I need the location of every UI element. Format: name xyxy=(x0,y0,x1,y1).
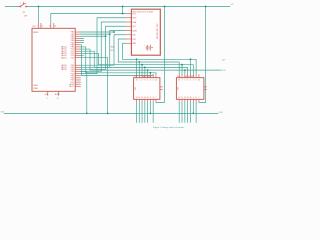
wire PB2 tap xyxy=(81,35,106,37)
IC3 right pin labels xyxy=(69,32,74,88)
svg-text:20: 20 xyxy=(41,25,43,27)
svg-text:16: 16 xyxy=(198,80,200,82)
svg-text:QH*: QH* xyxy=(222,59,226,61)
svg-text:13: 13 xyxy=(144,97,146,99)
shift register IC1 74HC595N body xyxy=(134,78,160,100)
svg-text:8: 8 xyxy=(153,97,154,99)
svg-text:+: + xyxy=(144,44,145,46)
svg-text:1: 1 xyxy=(139,80,140,82)
wire PB1 tap xyxy=(81,33,110,35)
svg-text:1: 1 xyxy=(20,2,21,4)
wire IC2 pin3 riser xyxy=(184,70,186,74)
svg-text:8: 8 xyxy=(47,98,48,100)
svg-text:5: 5 xyxy=(193,80,194,82)
svg-text:18: 18 xyxy=(54,25,56,27)
svg-text:10: 10 xyxy=(147,97,149,99)
IC2 bottom pins xyxy=(179,99,199,102)
wire rail drop to module VCC row xyxy=(122,7,124,14)
wire IC1 pin6 riser xyxy=(149,73,151,75)
module pin labels xyxy=(132,13,137,45)
svg-text:11: 11 xyxy=(138,97,140,99)
wire bus R6 xyxy=(86,72,156,74)
wire bus R4 xyxy=(94,66,187,68)
svg-text:6: 6 xyxy=(153,80,154,82)
svg-text:SCK: SCK xyxy=(222,70,227,72)
wire IC3 pin fan x98.5 to bus R3 xyxy=(81,53,99,64)
svg-text:13: 13 xyxy=(187,97,189,99)
svg-text:595: 595 xyxy=(178,87,180,90)
svg-text:1: 1 xyxy=(182,80,183,82)
junction GND bus IC3 xyxy=(86,113,88,115)
svg-text:595: 595 xyxy=(135,87,137,90)
junction IC1 GND xyxy=(150,113,152,115)
svg-text:2: 2 xyxy=(142,80,143,82)
junction IC1 pin3 on R3 xyxy=(141,64,143,66)
svg-text:6: 6 xyxy=(196,80,197,82)
svg-text:15: 15 xyxy=(178,80,180,82)
wire bus R1 xyxy=(123,58,197,60)
svg-text:+5V: +5V xyxy=(230,4,234,6)
module left pins xyxy=(125,14,131,44)
wire IC2 pin1 riser xyxy=(178,62,180,74)
IC3 right pins xyxy=(75,32,81,86)
microcontroller IC3 MEGA8-P body xyxy=(32,28,75,91)
wire bus R3 xyxy=(99,64,194,66)
svg-text:GND 3.3V+5V VCC SQW: GND 3.3V+5V VCC SQW xyxy=(132,11,153,13)
wire IC1 pin5 riser xyxy=(147,70,149,74)
svg-text:GND: GND xyxy=(132,18,137,20)
junction rail to IC2 VCC xyxy=(205,6,207,8)
wire module row 22.0 to IC3 row 71.5 xyxy=(81,22,126,72)
IC1 pin numbers xyxy=(136,80,157,100)
junction IC2 pin2 on R3 xyxy=(181,64,183,66)
IC3 inner long labels xyxy=(61,46,67,72)
junction IC2 pin5 on R1 xyxy=(190,58,192,60)
wire IC1 pin4 riser xyxy=(144,67,146,74)
wire PB0 tap xyxy=(81,31,114,33)
junction IC2 GND xyxy=(192,113,194,115)
svg-text:PC4: PC4 xyxy=(71,57,74,59)
junction IC2 pin3 on R5 xyxy=(184,69,186,71)
module U1 RTC DS1307 body xyxy=(131,9,160,55)
svg-text:7: 7 xyxy=(156,97,157,99)
IC1 right pins xyxy=(160,87,163,89)
wire VCC rail left of switch xyxy=(5,6,18,8)
svg-text:XTAL1: XTAL1 xyxy=(33,84,38,87)
svg-text:GND: GND xyxy=(219,112,224,114)
wire IC1 pin7 riser xyxy=(152,74,154,75)
switch S1 xyxy=(18,2,29,7)
wire VCC pin to rail xyxy=(38,7,40,24)
wire IC3 pin fan x85.75 to bus R6 xyxy=(81,47,86,73)
svg-text:3: 3 xyxy=(144,80,145,82)
svg-text:SQW: SQW xyxy=(132,30,137,32)
junction PB2 tap xyxy=(105,35,107,37)
wire module row 26.2 to IC3 row 69.4 xyxy=(81,26,126,69)
wire IC2 pin4 riser xyxy=(187,67,189,74)
svg-text:SCL: SCL xyxy=(111,50,114,52)
junction GND bus riser2 xyxy=(107,113,109,115)
svg-text:SCL: SCL xyxy=(132,26,136,28)
junction rail to IC3 VCC xyxy=(38,6,40,8)
wire IC3 GND riser xyxy=(81,72,87,114)
wire VCC drop to IC2 xyxy=(199,7,206,103)
shift register IC2 74HC595N body xyxy=(176,78,204,100)
wire IC2 output tails xyxy=(179,102,196,122)
svg-text:9: 9 xyxy=(193,97,194,99)
wire IC1 pin8 riser xyxy=(155,73,157,75)
wire IC2 pin6 riser xyxy=(192,65,194,75)
battery symbol inside module xyxy=(146,45,153,51)
svg-text:8: 8 xyxy=(196,97,197,99)
svg-text:14: 14 xyxy=(178,97,180,99)
svg-text:11: 11 xyxy=(181,97,183,99)
junction IC1 pin2 on R2 xyxy=(138,61,140,63)
svg-text:15: 15 xyxy=(136,80,138,82)
svg-text:12: 12 xyxy=(141,97,143,99)
svg-text:DS1307 RTC I2C: DS1307 RTC I2C xyxy=(157,23,159,39)
junction PB1 tap xyxy=(109,33,111,35)
wire module row 34.8 to IC3 row 65.2 xyxy=(81,35,126,65)
IC3 top pins VCC/AVCC/AREF xyxy=(39,23,54,28)
wire IC2 pin5 riser xyxy=(189,59,191,74)
wire GND bus xyxy=(4,112,218,114)
svg-text:21: 21 xyxy=(49,25,51,27)
wire IC3 pin fan x90.0 to bus R5 xyxy=(81,49,90,70)
wire AVCC to module VCC pin xyxy=(51,14,126,24)
IC1 bottom pins xyxy=(137,99,156,102)
wire IC2 pin2 riser xyxy=(181,65,183,75)
junction IC1 pin4 on R4 xyxy=(144,67,146,69)
svg-text:10: 10 xyxy=(190,97,192,99)
wire bus R5 xyxy=(90,69,221,71)
wire IC2 GND pin xyxy=(192,102,194,113)
svg-text:74HC595N: 74HC595N xyxy=(142,76,152,78)
wire IC1 pin3 riser xyxy=(141,65,143,75)
IC2 top pins xyxy=(179,74,199,77)
wire IC2 pin7 riser xyxy=(195,59,197,74)
junction rail to IC1 VCC xyxy=(164,6,166,8)
svg-text:XTAL2: XTAL2 xyxy=(33,87,38,90)
IC1 top pins xyxy=(137,74,156,77)
svg-text:2: 2 xyxy=(184,80,185,82)
wire IC1 output tails xyxy=(137,102,154,122)
svg-text:ADC7: ADC7 xyxy=(69,85,74,88)
junction PB0 tap xyxy=(113,31,115,33)
wire IC3 pin fan x94.25 to bus R4 xyxy=(81,51,94,67)
svg-text:RESET: RESET xyxy=(33,32,39,34)
IC2 pin numbers xyxy=(178,80,200,100)
junction IC1 pin6 on R6 xyxy=(150,72,152,74)
svg-text:14: 14 xyxy=(136,97,138,99)
wire bus R7 xyxy=(82,75,154,77)
wire IC1 pin1 riser xyxy=(136,59,138,74)
wire IC1 GND pin xyxy=(149,102,151,113)
IC3 bottom pins GND/AGND xyxy=(48,91,59,96)
wire module row 17.8 to IC3 row 73.6 xyxy=(81,18,126,74)
svg-text:3: 3 xyxy=(187,80,188,82)
svg-text:74HC595N: 74HC595N xyxy=(185,76,195,78)
junction IC1 pin5 on R5 xyxy=(147,69,149,71)
svg-text:12: 12 xyxy=(184,97,186,99)
svg-text:Figure 1: binary clock schemat: Figure 1: binary clock schematic xyxy=(153,126,185,129)
svg-text:4: 4 xyxy=(190,80,191,82)
svg-text:5: 5 xyxy=(150,80,151,82)
wire PC4 riser to GND bus xyxy=(81,58,108,114)
IC2 right pins xyxy=(204,87,207,89)
svg-text:7: 7 xyxy=(198,97,199,99)
junction IC1 pin1 on R1 xyxy=(136,58,138,60)
wire IC1 pin2 riser xyxy=(138,62,140,74)
junction rail to module VCC xyxy=(122,6,124,8)
wire bus R2 xyxy=(118,61,179,63)
wire module pin7 down to bus R2 xyxy=(118,39,125,62)
wire module pin8 down to bus R1 xyxy=(123,43,126,59)
wire VCC rail xyxy=(29,6,230,8)
svg-text:9: 9 xyxy=(150,97,151,99)
svg-text:4: 4 xyxy=(147,80,148,82)
wire IC3 pin fan x81.5 to bus R7 xyxy=(80,45,83,76)
wire module row 30.5 to IC3 row 67.3 xyxy=(81,31,126,68)
svg-text:16: 16 xyxy=(155,80,157,82)
wire VCC drop to IC1 xyxy=(156,7,165,103)
svg-text:GND: GND xyxy=(0,112,5,114)
svg-text:22: 22 xyxy=(57,98,59,100)
junction module VCC tee xyxy=(122,13,124,15)
wire stubs unused IC3 pins xyxy=(81,38,84,55)
